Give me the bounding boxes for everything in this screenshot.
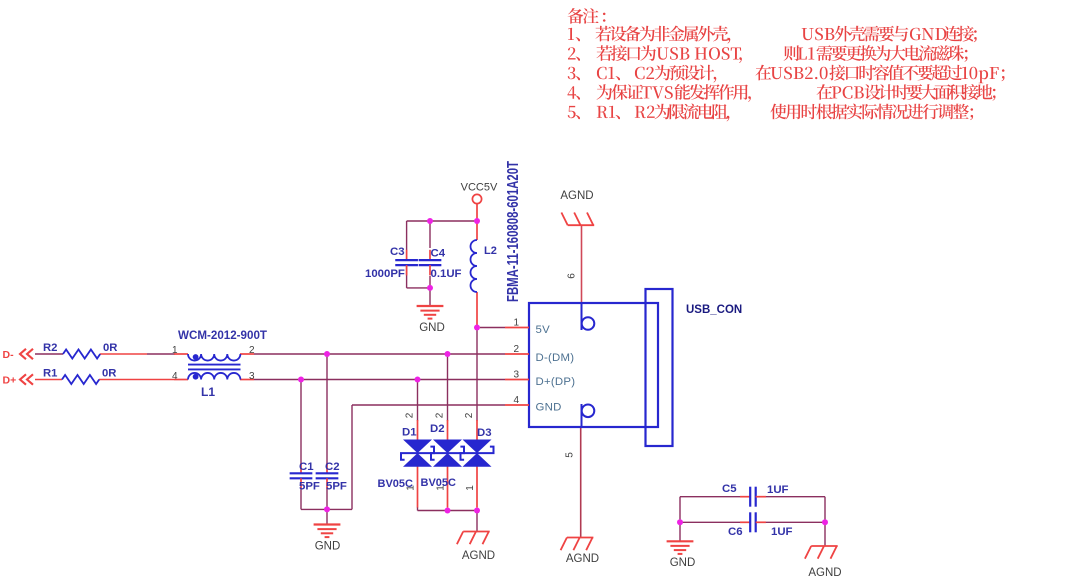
wire <box>418 510 478 512</box>
wire <box>429 276 431 306</box>
svg-text:C6: C6 <box>728 526 743 538</box>
wire <box>254 353 505 355</box>
ground AGND (C6) <box>805 546 842 579</box>
svg-text:D3: D3 <box>477 427 492 439</box>
svg-text:4: 4 <box>172 371 178 382</box>
pin 4 stub <box>505 404 529 406</box>
svg-text:D2: D2 <box>430 423 445 435</box>
wire <box>407 220 477 222</box>
svg-text:1UF: 1UF <box>771 526 793 538</box>
svg-text:C4: C4 <box>431 248 446 260</box>
node DP-C1 <box>298 377 304 383</box>
notes (red annotation text) <box>568 8 1005 121</box>
svg-text:AGND: AGND <box>566 553 599 565</box>
node C5C6-AGND <box>822 519 828 525</box>
svg-text:5V: 5V <box>536 324 551 336</box>
wire <box>480 327 505 329</box>
port D- <box>3 349 34 361</box>
svg-text:D-(DM): D-(DM) <box>536 352 575 364</box>
ground AGND (top shield) <box>560 190 594 225</box>
ground GND (C1/C2) <box>314 525 341 553</box>
svg-text:GND: GND <box>419 322 445 334</box>
svg-text:GND: GND <box>315 541 341 553</box>
TVS diode D2 <box>430 412 464 507</box>
svg-text:USB_CON: USB_CON <box>686 304 742 316</box>
svg-text:FBMA-11-160808-601A20T: FBMA-11-160808-601A20T <box>505 161 522 302</box>
svg-text:1: 1 <box>172 345 178 356</box>
capacitor C2 <box>316 461 347 493</box>
svg-text:5PF: 5PF <box>299 481 320 493</box>
svg-text:R1: R1 <box>43 368 57 380</box>
wire pin5 <box>580 427 582 537</box>
svg-text:0.1UF: 0.1UF <box>431 268 462 280</box>
wire <box>352 404 505 406</box>
wire <box>680 496 740 498</box>
ground AGND (TVS) <box>457 532 495 563</box>
wire <box>476 328 478 422</box>
ground AGND (pin5) <box>561 538 600 566</box>
wire <box>406 221 408 250</box>
svg-text:R2: R2 <box>43 342 57 354</box>
svg-text:1UF: 1UF <box>767 484 789 496</box>
USB connector USB_CON <box>505 273 742 458</box>
svg-text:3: 3 <box>249 371 255 382</box>
port D+ <box>3 374 34 386</box>
svg-text:1: 1 <box>465 485 476 491</box>
svg-text:GND: GND <box>536 402 562 414</box>
node VCC5V-L2 <box>474 218 480 224</box>
wire <box>476 511 478 532</box>
svg-text:2: 2 <box>434 412 445 418</box>
node DP-D1 <box>415 377 421 383</box>
wire <box>429 221 431 248</box>
capacitor C3 <box>365 246 418 280</box>
svg-text:5: 5 <box>565 452 576 458</box>
wire <box>679 497 681 523</box>
wire <box>35 353 63 355</box>
node C5C6-GND <box>677 519 683 525</box>
wire <box>766 496 826 498</box>
wire <box>447 354 449 421</box>
node D3-AGND <box>474 508 480 514</box>
svg-text:C1: C1 <box>299 461 314 473</box>
wire <box>326 488 328 509</box>
svg-text:AGND: AGND <box>808 567 841 579</box>
svg-text:WCM-2012-900T: WCM-2012-900T <box>178 330 267 342</box>
node DM-C2 <box>324 351 330 357</box>
svg-text:3: 3 <box>513 369 519 380</box>
svg-text:D1: D1 <box>402 427 417 439</box>
svg-text:0R: 0R <box>103 342 117 354</box>
pin 1 stub <box>505 327 529 329</box>
wire <box>417 507 419 511</box>
power VCC5V <box>461 182 498 222</box>
svg-text:VCC5V: VCC5V <box>461 182 498 194</box>
wire <box>35 379 62 381</box>
wire <box>326 509 328 525</box>
svg-text:2: 2 <box>513 344 519 355</box>
svg-text:AGND: AGND <box>560 190 593 202</box>
svg-text:2: 2 <box>464 412 475 418</box>
node D2-AGND <box>445 508 451 514</box>
wire <box>766 521 826 523</box>
svg-text:4: 4 <box>513 395 519 406</box>
svg-text:AGND: AGND <box>462 550 495 562</box>
node DM-D2 <box>445 351 451 357</box>
TVS diode D3 <box>461 412 494 507</box>
node 5V <box>474 325 480 331</box>
wire <box>407 287 430 289</box>
node C3/C4 bottom <box>427 285 433 291</box>
svg-text:0R: 0R <box>102 368 116 380</box>
svg-text:C2: C2 <box>325 461 340 473</box>
wire <box>300 380 302 464</box>
svg-text:L1: L1 <box>201 385 215 399</box>
svg-text:BV05C: BV05C <box>421 477 457 489</box>
svg-text:D-: D- <box>3 349 15 361</box>
wire <box>824 497 826 523</box>
svg-text:BV05C: BV05C <box>378 478 414 490</box>
svg-text:GND: GND <box>670 557 696 569</box>
wire <box>824 522 826 546</box>
resistor R1 <box>43 368 174 385</box>
pin 3 stub <box>505 379 529 381</box>
capacitor C1 <box>290 461 320 493</box>
node C3/C4 top <box>427 218 433 224</box>
svg-text:2: 2 <box>404 412 415 418</box>
wire <box>147 353 175 355</box>
wire <box>300 488 302 509</box>
ground GND (C3/C4) <box>417 306 445 334</box>
svg-text:D+(DP): D+(DP) <box>536 376 576 388</box>
svg-text:1000PF: 1000PF <box>365 268 405 280</box>
svg-text:6: 6 <box>567 273 578 279</box>
wire <box>680 521 740 523</box>
svg-text:2: 2 <box>249 345 255 356</box>
svg-text:C3: C3 <box>390 246 405 258</box>
svg-text:L2: L2 <box>484 245 497 257</box>
node C1C2-GND <box>324 506 330 512</box>
ferrite bead L2 <box>471 221 497 328</box>
pin 2 stub <box>505 353 529 355</box>
capacitor C6 <box>728 512 793 538</box>
capacitor C4 <box>419 248 462 281</box>
resistor R2 <box>43 342 147 359</box>
wire <box>679 522 681 541</box>
wire <box>417 380 419 422</box>
wire pin6 <box>581 225 583 303</box>
ground GND (C5/C6) <box>667 541 696 569</box>
svg-text:5PF: 5PF <box>326 481 347 493</box>
wire <box>351 405 353 509</box>
TVS diode D1 <box>401 412 434 507</box>
wire <box>406 265 408 288</box>
wire <box>254 379 505 381</box>
wire <box>326 354 328 464</box>
capacitor C5 <box>722 483 789 507</box>
svg-text:C5: C5 <box>722 483 737 495</box>
wire <box>301 508 352 510</box>
svg-text:D+: D+ <box>3 375 17 387</box>
common-mode choke L1 <box>172 330 267 399</box>
svg-text:1: 1 <box>513 317 519 328</box>
